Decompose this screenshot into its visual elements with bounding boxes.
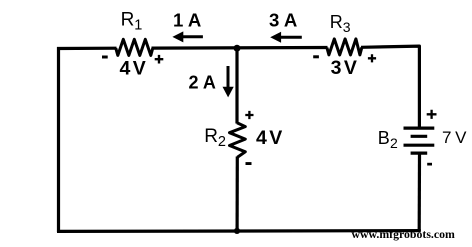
polarity plus of battery B2 bbox=[427, 110, 437, 119]
wire left vertical bbox=[57, 47, 60, 232]
polarity minus of R3 bbox=[313, 55, 319, 58]
current arrow 3 A bbox=[279, 36, 302, 39]
svg-text:7 V: 7 V bbox=[442, 128, 467, 147]
svg-text:2 A: 2 A bbox=[189, 73, 216, 93]
svg-text:1: 1 bbox=[134, 18, 142, 34]
svg-text:www.mfgrobots.com: www.mfgrobots.com bbox=[352, 227, 455, 241]
battery B2 plate long lower bbox=[404, 144, 435, 147]
polarity plus of R1 bbox=[155, 55, 164, 64]
polarity minus of R1 bbox=[102, 56, 108, 59]
wire right vertical lower bbox=[418, 155, 421, 232]
wire top-middle segment bbox=[152, 46, 328, 50]
wire top-right segment bbox=[361, 46, 419, 127]
polarity minus of R2 bbox=[246, 162, 252, 165]
node junction top bbox=[234, 45, 241, 52]
svg-text:2: 2 bbox=[390, 135, 398, 151]
svg-text:R: R bbox=[121, 10, 135, 31]
svg-text:3 V: 3 V bbox=[331, 57, 357, 79]
svg-text:3 A: 3 A bbox=[269, 9, 297, 30]
battery B2 plate short upper bbox=[411, 135, 428, 138]
svg-text:R: R bbox=[330, 12, 343, 32]
polarity minus of battery B2 bbox=[427, 163, 432, 166]
current arrow 2 A bbox=[227, 66, 230, 89]
battery B2 plate long top bbox=[404, 127, 435, 130]
svg-text:3: 3 bbox=[343, 19, 351, 35]
polarity plus of R3 bbox=[368, 54, 376, 62]
svg-text:2: 2 bbox=[218, 134, 226, 150]
svg-text:1 A: 1 A bbox=[173, 9, 201, 30]
resistor R3 bbox=[327, 39, 362, 55]
svg-text:R: R bbox=[204, 126, 218, 147]
svg-text:4 V: 4 V bbox=[120, 58, 146, 80]
wire top-left segment bbox=[57, 47, 117, 50]
wire bottom horizontal bbox=[57, 229, 421, 233]
polarity plus of R2 bbox=[245, 111, 253, 119]
node junction bottom bbox=[234, 228, 240, 234]
current arrow 1 A bbox=[181, 35, 203, 38]
battery B2 plate short bottom bbox=[411, 152, 428, 155]
wire middle branch lower bbox=[236, 157, 239, 232]
svg-text:4 V: 4 V bbox=[256, 127, 282, 149]
wire middle branch upper bbox=[235, 47, 238, 124]
svg-text:B: B bbox=[378, 128, 390, 148]
resistor R1 bbox=[116, 39, 153, 55]
resistor R2 bbox=[230, 123, 246, 157]
